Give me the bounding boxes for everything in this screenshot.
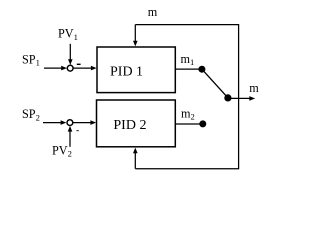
contact dot m1	[198, 66, 205, 73]
wire junction 1 to PID 1 input	[74, 66, 97, 71]
switch common dot	[224, 94, 231, 101]
wire output m arrow	[228, 96, 255, 101]
svg-text:m: m	[249, 81, 259, 95]
wire PV2 up into summing junction 2	[68, 126, 73, 147]
PID controller block PID 1	[97, 47, 175, 93]
svg-text:PID 1: PID 1	[110, 64, 143, 79]
summing junction 2	[67, 120, 73, 126]
svg-text:PID 2: PID 2	[113, 118, 146, 133]
feedback wire down into PID 1 top	[133, 25, 138, 47]
wire SP2 to summing junction 2	[43, 120, 66, 125]
feedback wire up into PID 2 bottom	[133, 148, 138, 169]
wire PV1 down into summing junction	[68, 44, 73, 65]
summing junction 1	[67, 65, 73, 71]
minus sign at junction 2	[76, 130, 79, 131]
switch arm from m1 to common point	[202, 69, 228, 98]
feedback wire: up right vertical, top horizontal	[135, 25, 238, 99]
PID controller block PID 2	[97, 100, 176, 147]
feedback wire: down right vertical, bottom horizontal	[135, 98, 238, 168]
wire PID 1 output to contact m1	[176, 68, 201, 70]
minus sign at junction 1	[77, 64, 81, 65]
svg-text:m: m	[148, 5, 158, 19]
wire junction 2 to PID 2 input	[73, 120, 96, 125]
wire SP1 to summing junction	[44, 66, 67, 71]
wire PID 2 output to contact m2	[176, 123, 202, 125]
contact dot m2	[199, 120, 206, 127]
